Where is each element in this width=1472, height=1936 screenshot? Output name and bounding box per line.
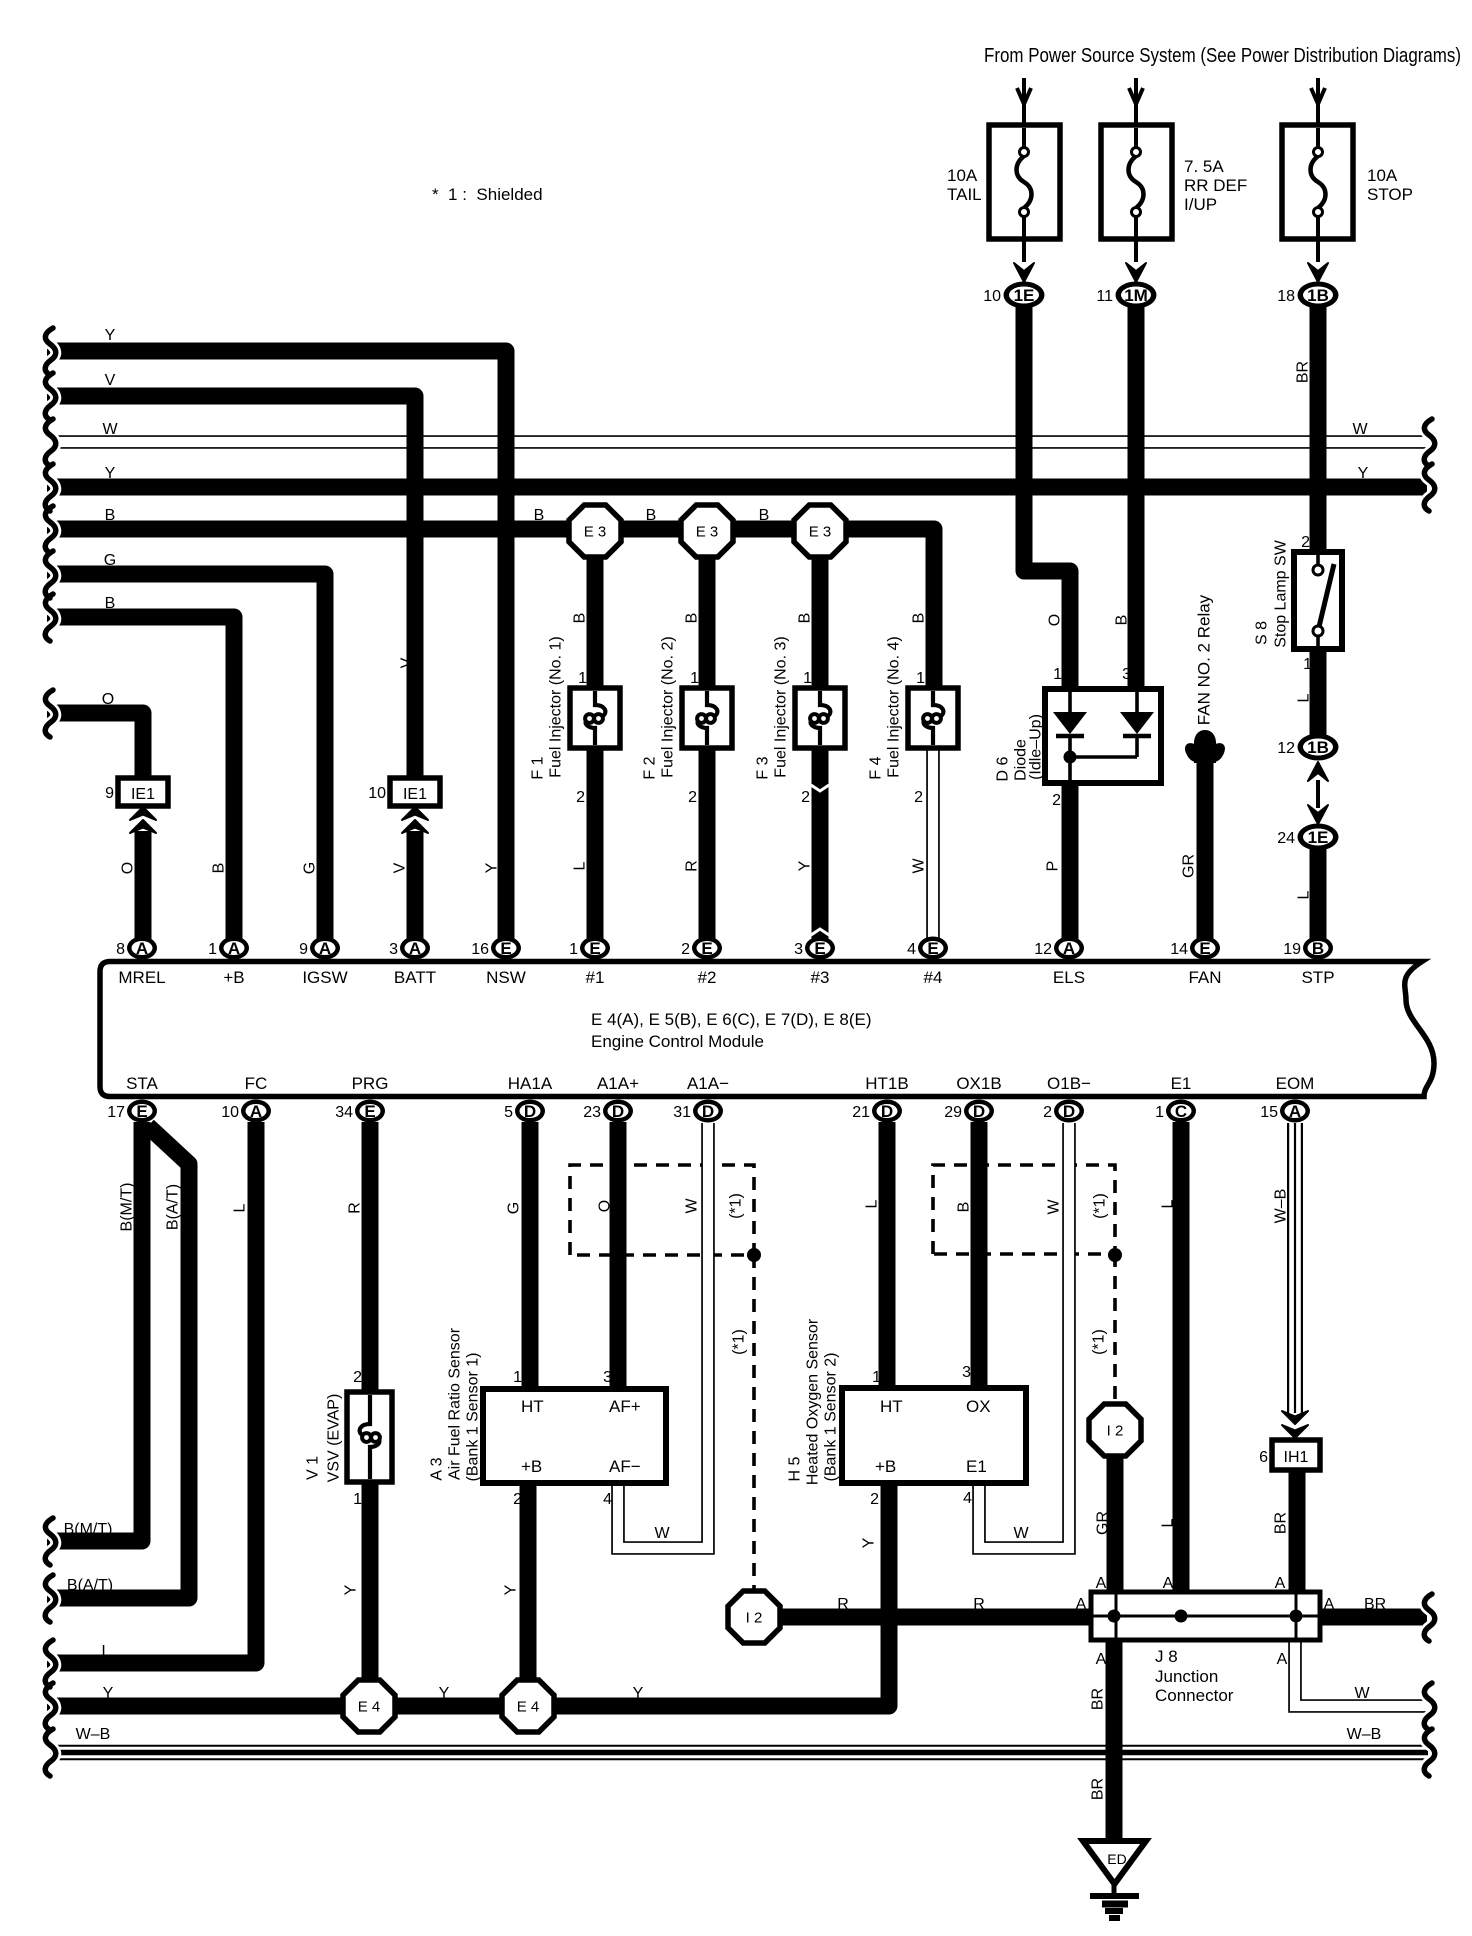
ECM pin OX1B 29(D) <box>964 1100 994 1123</box>
svg-text:+B: +B <box>521 1457 542 1476</box>
svg-text:B: B <box>646 507 657 524</box>
svg-text:I 2: I 2 <box>1107 1423 1124 1440</box>
svg-text:E1: E1 <box>966 1457 987 1476</box>
wire GR I2 to J8 junction connector <box>1107 1452 1124 1596</box>
H5 heated oxygen sensor box <box>842 1388 1026 1483</box>
svg-text:24: 24 <box>1277 830 1295 847</box>
svg-text:BATT: BATT <box>394 968 436 987</box>
A3 air fuel ratio sensor box <box>483 1389 666 1483</box>
shield junction dot <box>1108 1248 1122 1262</box>
svg-text:11: 11 <box>1096 288 1113 305</box>
svg-text:Stop Lamp SW: Stop Lamp SW <box>1273 539 1290 648</box>
svg-text:10: 10 <box>368 785 386 802</box>
junction connector IE1 (10) <box>390 778 440 806</box>
fuse 7. 5A RR DEF <box>1134 78 1138 150</box>
wire B(A/T) STA to left break <box>47 1126 189 1598</box>
svg-text:A: A <box>1076 1596 1087 1613</box>
svg-text:W: W <box>684 1198 701 1214</box>
svg-text:E: E <box>364 1102 375 1121</box>
svg-text:V: V <box>105 372 116 389</box>
ECM pin A1A+ 23(D) <box>603 1100 633 1123</box>
svg-text:TAIL: TAIL <box>947 185 982 204</box>
shield drain dashed wire to I2 (right) <box>1113 1254 1117 1408</box>
wire B from E3 to fuel injector No.3 <box>812 531 829 690</box>
svg-text:S 8: S 8 <box>1254 621 1271 645</box>
wire O A1A+ pin 23D to A3 AF+ pin 3 <box>610 1122 627 1392</box>
wire notch on injector 3 lead <box>811 785 829 791</box>
svg-text:A: A <box>1063 939 1075 958</box>
svg-text:W: W <box>911 858 928 874</box>
svg-text:STOP: STOP <box>1367 185 1413 204</box>
svg-text:FAN: FAN <box>1188 968 1221 987</box>
svg-text:E 4: E 4 <box>517 1699 540 1716</box>
connector arrow down into 24(1E) <box>1308 805 1328 824</box>
diode D6 right element <box>1135 692 1139 712</box>
wire G from left break to IGSW pin 9A <box>47 574 325 948</box>
svg-text:D: D <box>612 1102 624 1121</box>
svg-text:* 1 : Shielded: * 1 : Shielded <box>432 185 543 204</box>
svg-text:(*1): (*1) <box>731 1329 748 1355</box>
svg-text:BR: BR <box>1295 361 1312 383</box>
ECM pin BATT 3(A) <box>400 937 430 960</box>
svg-text:PRG: PRG <box>352 1074 389 1093</box>
ECM pin STA 17(E) <box>127 1100 157 1123</box>
svg-text:#4: #4 <box>924 968 943 987</box>
svg-text:1: 1 <box>578 670 587 687</box>
ECM pin NSW 16(E) <box>491 937 521 960</box>
svg-text:IGSW: IGSW <box>302 968 347 987</box>
svg-text:12: 12 <box>1034 941 1052 958</box>
svg-text:2: 2 <box>1043 1104 1052 1121</box>
svg-text:D: D <box>1063 1102 1075 1121</box>
wire R injector2 to ECM #2 pin 2E <box>699 746 716 948</box>
svg-text:STA: STA <box>126 1074 158 1093</box>
svg-text:GR: GR <box>1181 854 1198 878</box>
svg-text:A1A+: A1A+ <box>597 1074 639 1093</box>
svg-text:W: W <box>1352 421 1368 438</box>
svg-text:E 3: E 3 <box>696 524 719 541</box>
svg-text:8: 8 <box>116 941 125 958</box>
svg-text:O1B−: O1B− <box>1047 1074 1091 1093</box>
svg-text:19: 19 <box>1283 941 1301 958</box>
wire V below IE1 to BATT <box>407 831 424 948</box>
svg-text:Fuel Injector (No. 3): Fuel Injector (No. 3) <box>773 636 790 777</box>
svg-text:MREL: MREL <box>118 968 165 987</box>
svg-text:O: O <box>1047 614 1064 626</box>
ECM pin ELS 12(A) <box>1054 937 1084 960</box>
svg-text:2: 2 <box>576 789 585 806</box>
svg-text:J 8: J 8 <box>1155 1647 1178 1666</box>
svg-text:AF−: AF− <box>609 1457 641 1476</box>
svg-text:2: 2 <box>688 789 697 806</box>
svg-text:Y: Y <box>105 465 116 482</box>
svg-text:D: D <box>973 1102 985 1121</box>
svg-text:1B: 1B <box>1307 286 1329 305</box>
junction connector IH1 (6) <box>1272 1440 1320 1470</box>
svg-text:3: 3 <box>1122 666 1131 683</box>
ECM pin HA1A 5(D) <box>515 1100 545 1123</box>
fuel injector F2 (No. 2) <box>682 688 732 748</box>
svg-text:Y: Y <box>1358 465 1369 482</box>
svg-text:1: 1 <box>1155 1104 1164 1121</box>
svg-text:V 1: V 1 <box>305 1456 322 1480</box>
svg-text:(*1): (*1) <box>1092 1193 1109 1219</box>
shield junction dot <box>747 1248 761 1262</box>
svg-text:Air Fuel Ratio Sensor: Air Fuel Ratio Sensor <box>447 1327 464 1480</box>
svg-text:F 4: F 4 <box>868 756 885 779</box>
svg-text:10A: 10A <box>1367 166 1398 185</box>
svg-text:5: 5 <box>504 1104 513 1121</box>
svg-text:Y: Y <box>503 1584 520 1595</box>
ECM pin #3 3(E) <box>805 937 835 960</box>
svg-text:D: D <box>524 1102 536 1121</box>
ECM pin MREL 8(A) <box>127 937 157 960</box>
wire R PRG pin 34E to VSV pin 2 <box>362 1122 379 1394</box>
svg-text:G: G <box>302 862 319 874</box>
svg-text:B(M/T): B(M/T) <box>119 1183 136 1232</box>
svg-text:A: A <box>1275 1575 1286 1592</box>
svg-text:3: 3 <box>962 1364 971 1381</box>
wire GR fan relay to FAN pin 14E <box>1197 758 1214 948</box>
svg-text:L: L <box>1160 1199 1177 1208</box>
svg-text:D: D <box>881 1102 893 1121</box>
wire L HT1B pin 21D to H5 HT pin 1 <box>879 1122 896 1392</box>
ECM pin #2 2(E) <box>692 937 722 960</box>
svg-text:A: A <box>1096 1575 1107 1592</box>
svg-text:E 4: E 4 <box>358 1699 381 1716</box>
FAN NO. 2 relay arrow <box>1194 730 1216 763</box>
diode D6 left element <box>1068 692 1072 712</box>
fuel injector F3 (No. 3) <box>795 688 845 748</box>
svg-text:R: R <box>837 1596 849 1613</box>
svg-text:1: 1 <box>872 1369 881 1386</box>
svg-text:B: B <box>911 613 928 624</box>
svg-text:A: A <box>409 939 421 958</box>
VSV V1 (EVAP) <box>347 1392 392 1482</box>
svg-text:E 3: E 3 <box>809 524 832 541</box>
svg-text:L: L <box>1160 1518 1177 1527</box>
svg-text:E: E <box>589 939 600 958</box>
ECM pin O1B&#8722; 2(D) <box>1054 1100 1084 1123</box>
svg-text:Heated Oxygen Sensor: Heated Oxygen Sensor <box>805 1318 822 1485</box>
wire W from J8 junction connector to right (white) <box>1295 1638 1428 1706</box>
svg-text:A: A <box>136 939 148 958</box>
wire B OX1B pin 29D to H5 OX pin 3 <box>971 1122 988 1392</box>
wire break marks <box>45 328 56 375</box>
shield drain dashed wire to I2 (left) <box>752 1255 756 1589</box>
svg-text:B: B <box>956 1202 973 1213</box>
connector arrow up into 12(1B) <box>1308 762 1328 781</box>
svg-text:4: 4 <box>603 1491 612 1508</box>
wire L E1 pin 1C to J8 junction connector <box>1173 1122 1190 1596</box>
svg-text:Connector: Connector <box>1155 1686 1234 1705</box>
svg-text:E: E <box>701 939 712 958</box>
svg-text:HT1B: HT1B <box>865 1074 908 1093</box>
svg-text:FAN NO. 2 Relay: FAN NO. 2 Relay <box>1195 594 1214 725</box>
junction connector J8 <box>1091 1592 1320 1640</box>
connector arrows into IH1 <box>1282 1411 1308 1424</box>
svg-text:From Power Source System (See: From Power Source System (See Power Dist… <box>984 45 1461 67</box>
ECM pin #4 4(E) <box>918 937 948 960</box>
svg-text:2: 2 <box>870 1491 879 1508</box>
ECM pin E1 1(C) <box>1166 1100 1196 1123</box>
svg-text:O: O <box>120 862 137 874</box>
wire O from left break to MREL pin 8A via IE1 <box>47 713 143 783</box>
svg-text:Y: Y <box>797 860 814 871</box>
svg-text:W–B: W–B <box>1273 1189 1290 1224</box>
J8 internal junction dots <box>1108 1610 1121 1623</box>
wire A/BR J8 to right break <box>1317 1609 1427 1626</box>
svg-text:1: 1 <box>1053 666 1062 683</box>
wire R I2 to J8 junction connector <box>776 1609 1094 1626</box>
svg-text:B: B <box>534 507 545 524</box>
wire B from fuse 1M oval to diode pin 3 <box>1128 305 1145 690</box>
svg-text:W: W <box>102 421 118 438</box>
svg-text:2: 2 <box>914 789 923 806</box>
svg-text:B: B <box>105 595 116 612</box>
wire L switch pin 1 to 12(1B) oval <box>1310 647 1327 740</box>
svg-text:B: B <box>797 613 814 624</box>
svg-text:Y: Y <box>105 327 116 344</box>
wire Y VSV pin 1 to E4 joint <box>362 1480 379 1684</box>
svg-text:W: W <box>1046 1199 1063 1215</box>
wire Y horizontal rail <box>47 479 1427 496</box>
connector oval 24(1E) <box>1298 824 1339 851</box>
svg-text:Y: Y <box>103 1685 114 1702</box>
svg-text:14: 14 <box>1170 941 1188 958</box>
svg-text:V: V <box>392 862 409 873</box>
svg-text:4: 4 <box>907 941 916 958</box>
joint connector E3 at x=820 <box>794 505 846 557</box>
svg-text:IH1: IH1 <box>1284 1449 1309 1466</box>
svg-text:ELS: ELS <box>1053 968 1085 987</box>
ECM pin FAN 14(E) <box>1190 937 1220 960</box>
svg-text:G: G <box>506 1202 523 1214</box>
svg-text:L: L <box>864 1199 881 1208</box>
svg-text:31: 31 <box>673 1104 691 1121</box>
svg-text:3: 3 <box>794 941 803 958</box>
svg-text:E: E <box>814 939 825 958</box>
ECM pin A1A&#8722; 31(D) <box>693 1100 723 1123</box>
svg-text:Fuel Injector (No. 4): Fuel Injector (No. 4) <box>886 636 903 777</box>
svg-text:10: 10 <box>983 288 1001 305</box>
svg-text:2: 2 <box>1052 792 1061 809</box>
connector oval 11(1M) <box>1116 282 1157 309</box>
svg-text:E 4(A), E 5(B), E 6(C), E 7(D): E 4(A), E 5(B), E 6(C), E 7(D), E 8(E) <box>591 1010 872 1029</box>
wire B from E3 to fuel injector No.1 <box>587 531 604 690</box>
svg-text:RR DEF: RR DEF <box>1184 176 1247 195</box>
wire L FC pin 10A to left break <box>47 1122 256 1663</box>
svg-text:L: L <box>1296 693 1313 702</box>
svg-text:IE1: IE1 <box>403 786 427 803</box>
svg-text:R: R <box>684 860 701 872</box>
svg-text:G: G <box>104 552 116 569</box>
svg-text:16: 16 <box>471 941 489 958</box>
joint connector I2 (right) <box>1089 1404 1141 1456</box>
ECM pin STP 19(B) <box>1303 937 1333 960</box>
svg-text:Junction: Junction <box>1155 1667 1218 1686</box>
shielded cable dashed box (H5 sensor wires) <box>933 1165 1115 1254</box>
svg-text:L: L <box>232 1203 249 1212</box>
svg-text:(Bank 1 Sensor 1): (Bank 1 Sensor 1) <box>465 1353 482 1482</box>
svg-text:18: 18 <box>1277 288 1295 305</box>
svg-text:B(M/T): B(M/T) <box>64 1521 113 1538</box>
joint connector E3 at x=595 <box>569 505 621 557</box>
svg-text:EOM: EOM <box>1276 1074 1315 1093</box>
wire W (white) top rail <box>50 435 1428 449</box>
wire W from O1B- pin 2D to H5 E1 pin 4 (white) <box>979 1123 1069 1548</box>
svg-text:NSW: NSW <box>486 968 526 987</box>
svg-text:Y: Y <box>439 1685 450 1702</box>
svg-text:A: A <box>250 1102 262 1121</box>
fuel injector F4 (No. 4) <box>908 688 958 748</box>
svg-text:Engine Control Module: Engine Control Module <box>591 1032 764 1051</box>
svg-text:E: E <box>1199 939 1210 958</box>
svg-text:Fuel Injector (No. 1): Fuel Injector (No. 1) <box>548 636 565 777</box>
svg-text:B: B <box>105 507 116 524</box>
svg-text:W: W <box>1354 1685 1370 1702</box>
connector arrow into 11(1M) <box>1126 263 1146 282</box>
switch S8 stop lamp SW <box>1294 552 1342 649</box>
arrows into IE1 <box>130 807 156 820</box>
svg-text:1E: 1E <box>1014 286 1035 305</box>
ECM pin PRG 34(E) <box>355 1100 385 1123</box>
svg-text:A: A <box>1096 1651 1107 1668</box>
joint connector I2 (left) <box>728 1591 780 1643</box>
svg-text:+B: +B <box>875 1457 896 1476</box>
svg-text:10: 10 <box>221 1104 239 1121</box>
svg-text:A: A <box>1289 1102 1301 1121</box>
wire B(M/T) STA pin 17E to left break <box>47 1122 142 1541</box>
wire L 24(1E) oval to STP pin 19B <box>1310 845 1327 948</box>
svg-text:A 3: A 3 <box>429 1457 446 1480</box>
svg-text:L: L <box>102 1643 111 1660</box>
svg-text:STP: STP <box>1301 968 1334 987</box>
svg-text:(*1): (*1) <box>1091 1329 1108 1355</box>
svg-text:1B: 1B <box>1307 738 1329 757</box>
svg-text:BR: BR <box>1090 1778 1107 1800</box>
shielded wire W-B from EOM pin 15A to IH1 <box>1287 1123 1303 1413</box>
svg-text:3: 3 <box>389 941 398 958</box>
wire G HA1A pin 5D to A3 HT pin 1 <box>522 1122 539 1392</box>
svg-text:3: 3 <box>603 1369 612 1386</box>
svg-text:B: B <box>1114 615 1131 626</box>
svg-text:E: E <box>136 1102 147 1121</box>
wire B rail to E3 joints and fuel injector No.4 <box>47 529 934 690</box>
svg-text:HA1A: HA1A <box>508 1074 553 1093</box>
shielded cable dashed box (A3 sensor wires) <box>570 1165 754 1255</box>
connector oval 10(1E) <box>1004 282 1045 309</box>
joint connector E3 at x=707 <box>681 505 733 557</box>
wire B from left break to +B pin 1A <box>47 617 234 948</box>
ECM pin #1 1(E) <box>580 937 610 960</box>
svg-text:W–B: W–B <box>1347 1726 1382 1743</box>
svg-text:Y: Y <box>633 1685 644 1702</box>
svg-text:12: 12 <box>1277 740 1295 757</box>
svg-text:D: D <box>702 1102 714 1121</box>
svg-text:I 2: I 2 <box>746 1610 763 1627</box>
svg-text:7. 5A: 7. 5A <box>1184 157 1224 176</box>
arrows into IE1 <box>402 807 428 820</box>
ECM E4(A)..E8(E) Engine Control Module box <box>100 962 1434 1097</box>
svg-text:Y: Y <box>861 1537 878 1548</box>
diode D6 (Idle-Up) box <box>1045 689 1161 783</box>
svg-text:OX: OX <box>966 1397 991 1416</box>
svg-text:A: A <box>1163 1575 1174 1592</box>
joint connector E4 (PRG) <box>343 1680 395 1732</box>
wire W-B (shielded) bottom rail <box>50 1745 1428 1761</box>
svg-text:B: B <box>572 613 589 624</box>
svg-text:1: 1 <box>208 941 217 958</box>
svg-text:17: 17 <box>107 1104 125 1121</box>
svg-text:OX1B: OX1B <box>956 1074 1001 1093</box>
svg-text:Fuel Injector (No. 2): Fuel Injector (No. 2) <box>660 636 677 777</box>
svg-text:IE1: IE1 <box>131 786 155 803</box>
svg-text:1M: 1M <box>1124 286 1148 305</box>
fuse 10A TAIL <box>1022 78 1026 150</box>
svg-text:2: 2 <box>681 941 690 958</box>
svg-text:B: B <box>211 863 228 874</box>
svg-text:F 1: F 1 <box>530 756 547 779</box>
svg-text:BR: BR <box>1364 1596 1386 1613</box>
svg-text:BR: BR <box>1273 1512 1290 1534</box>
svg-text:A: A <box>319 939 331 958</box>
svg-text:1: 1 <box>916 670 925 687</box>
junction connector IE1 (9) <box>118 778 168 806</box>
svg-text:L: L <box>1296 890 1313 899</box>
ECM pin EOM 15(A) <box>1280 1100 1310 1123</box>
fuel injector F1 (No. 1) <box>570 688 620 748</box>
svg-text:23: 23 <box>583 1104 601 1121</box>
svg-text:15: 15 <box>1260 1104 1278 1121</box>
connector arrow into 18(1B) <box>1308 263 1328 282</box>
svg-text:HT: HT <box>880 1397 903 1416</box>
ECM pin IGSW 9(A) <box>310 937 340 960</box>
svg-text:W: W <box>654 1525 670 1542</box>
svg-text:(Idle–Up): (Idle–Up) <box>1028 714 1045 780</box>
svg-text:P: P <box>1045 861 1062 872</box>
svg-text:9: 9 <box>299 941 308 958</box>
svg-text:HT: HT <box>521 1397 544 1416</box>
wire Y injector3 to ECM #3 pin 3E <box>812 746 829 948</box>
svg-text:B: B <box>759 507 770 524</box>
svg-text:W–B: W–B <box>76 1726 111 1743</box>
svg-text:V: V <box>399 657 416 668</box>
svg-text:R: R <box>973 1596 985 1613</box>
svg-text:A: A <box>1277 1651 1288 1668</box>
svg-text:6: 6 <box>1259 1449 1268 1466</box>
wire Y rail with E4 joints to H5 +B pin 2 <box>47 1480 889 1706</box>
svg-text:B: B <box>684 613 701 624</box>
svg-text:Y: Y <box>343 1584 360 1595</box>
svg-text:O: O <box>597 1200 614 1212</box>
ground ED <box>1083 1841 1146 1884</box>
svg-text:ED: ED <box>1107 1851 1126 1867</box>
svg-text:A1A−: A1A− <box>687 1074 729 1093</box>
svg-text:1: 1 <box>690 670 699 687</box>
svg-text:H 5: H 5 <box>787 1456 804 1481</box>
svg-text:2: 2 <box>353 1369 362 1386</box>
svg-text:+B: +B <box>223 968 244 987</box>
svg-text:1: 1 <box>353 1491 362 1508</box>
svg-text:#2: #2 <box>698 968 717 987</box>
svg-text:21: 21 <box>852 1104 870 1121</box>
fuse 10A STOP <box>1316 78 1320 150</box>
svg-text:B: B <box>1312 939 1324 958</box>
ECM pin HT1B 21(D) <box>872 1100 902 1123</box>
svg-text:FC: FC <box>245 1074 268 1093</box>
svg-text:O: O <box>102 691 114 708</box>
